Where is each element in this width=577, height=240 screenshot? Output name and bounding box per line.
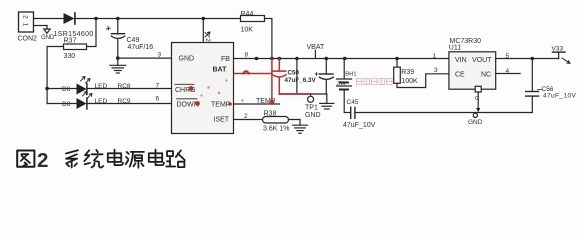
char 电 (1) (108, 150, 123, 165)
wire (red): C50 bottom to TP1 node (279, 93, 310, 95)
red annotation overlay (189, 59, 392, 106)
svg-text:47uF_10V: 47uF_10V (343, 122, 376, 129)
DOWN pin name with overline (177, 99, 199, 109)
svg-text:C45: C45 (347, 99, 359, 106)
svg-text:VOUT: VOUT (472, 57, 492, 64)
svg-text:C49: C49 (127, 37, 140, 44)
resistor R38 (263, 117, 289, 124)
svg-text:V33: V33 (552, 46, 564, 53)
svg-text:U11: U11 (449, 45, 461, 52)
svg-text:8: 8 (245, 51, 249, 58)
node: IC pin2 junction (202, 17, 206, 21)
node: R39 junction (395, 57, 399, 61)
red watermark marks (357, 79, 393, 85)
red blob at DOWN pin (195, 101, 200, 106)
node: C56 junction (531, 57, 535, 61)
svg-text:FB: FB (221, 56, 230, 63)
wire (red): BAT pin to node (235, 73, 272, 75)
svg-text:CE: CE (455, 72, 465, 79)
capacitor C50 (red) (273, 59, 287, 95)
red blob at TEMP end (269, 100, 274, 105)
svg-text:47uF/16: 47uF/16 (128, 44, 154, 51)
ground symbol under C49 (110, 58, 126, 73)
resistor R44 (241, 16, 265, 22)
svg-text:R39: R39 (401, 69, 414, 76)
ground symbol at TP1 node (320, 94, 334, 109)
node: rail drop junction (295, 57, 299, 61)
wire (red): vertical VBAT to TEMP (271, 59, 273, 104)
svg-text:D6: D6 (62, 86, 71, 93)
svg-text:330: 330 (64, 53, 76, 60)
wire: LED D8 cathode to DOWN pin (87, 103, 172, 105)
wire: to LED D6 anode (47, 88, 76, 90)
char 路 (166, 151, 185, 168)
char 源 (126, 152, 144, 168)
wire: R37 feed from rail (87, 19, 97, 47)
char 统 (84, 150, 103, 168)
capacitor (black) at battery node (315, 59, 333, 95)
svg-text:R38: R38 (264, 111, 277, 118)
G pin pad of U11 (475, 86, 481, 112)
svg-text:BAT: BAT (213, 66, 228, 73)
svg-text:TEMP: TEMP (211, 102, 231, 109)
svg-text:GND: GND (305, 112, 321, 119)
ground symbol at CON2 pin1 (44, 26, 50, 34)
svg-text:10K: 10K (241, 27, 254, 34)
connector CON2 (19, 12, 34, 32)
svg-text:1: 1 (21, 23, 28, 27)
wire: bottom rail left of C45 (345, 112, 351, 114)
battery BH1 (337, 59, 352, 113)
wire: TEMP pin out (234, 103, 280, 105)
LED D6 (77, 77, 91, 95)
wire: rail to R44 (203, 18, 240, 20)
svg-text:BH1: BH1 (345, 72, 356, 78)
svg-text:5: 5 (506, 53, 510, 60)
svg-text:R44: R44 (241, 11, 254, 18)
capacitor C49 (106, 19, 124, 59)
svg-text:47uF_10V: 47uF_10V (543, 93, 576, 100)
ground symbol under R38 (293, 125, 308, 133)
wire: CON2 pin1 to ground (34, 25, 48, 27)
resistor R39 (394, 59, 449, 88)
red blob at TEMP pin (228, 102, 232, 106)
svg-text:3.6K 1%: 3.6K 1% (263, 126, 289, 133)
wire: VOUT to V33 (496, 58, 559, 60)
VBAT net label (307, 44, 325, 58)
resistor R37 (64, 44, 87, 50)
red bump on BAT wire (243, 71, 249, 73)
NC stub wire (496, 73, 520, 75)
wire: LED D6 cathode to CHRG pin (87, 88, 172, 90)
red specks inside charger IC (200, 79, 243, 101)
GND marker circle on bottom rail (473, 113, 477, 117)
char 电 (2) (149, 150, 164, 165)
test point TP1 (308, 94, 314, 102)
op-amp/charger IC U? box (172, 43, 234, 134)
wire: bottom rail C45 to C56 (355, 112, 532, 114)
node: C50 junction (278, 57, 282, 61)
wire: FB/VBAT rail to U11 VIN (234, 58, 449, 60)
wire: rail drop to gnd node (296, 59, 298, 95)
svg-text:47uF_6.3V: 47uF_6.3V (285, 77, 317, 84)
wire: diode cathode to rail (75, 18, 203, 20)
wire: R44 right end down to VBAT rail (265, 19, 272, 59)
wire: to LED D8 anode (47, 103, 76, 105)
wire: R38 to ground (289, 120, 301, 126)
svg-text:2: 2 (21, 15, 28, 19)
char 系 (66, 150, 78, 167)
svg-text:2: 2 (204, 38, 211, 42)
svg-text:VIN: VIN (455, 57, 467, 64)
LED D8 (77, 92, 93, 110)
svg-text:R37: R37 (64, 38, 77, 45)
node: R44 drop junction (270, 57, 274, 61)
clock mark at pin 2 (205, 32, 210, 37)
svg-text:TP1: TP1 (305, 104, 318, 111)
regulator U11 box (449, 52, 496, 89)
node: battery junction (343, 57, 347, 61)
svg-text:NC: NC (481, 72, 491, 79)
capacitor C45 (351, 107, 355, 118)
svg-text:GND: GND (179, 55, 195, 62)
svg-text:GND: GND (468, 119, 483, 126)
svg-text:100K: 100K (401, 78, 418, 85)
svg-text:CON2: CON2 (18, 36, 38, 43)
svg-text:6: 6 (156, 96, 160, 103)
node: C49 tap junction (116, 17, 120, 21)
wire: ISET pin to R38 (234, 119, 263, 121)
svg-text:3W: 3W (337, 81, 346, 87)
node: LED top row junction (45, 87, 49, 91)
svg-text:3: 3 (434, 67, 438, 74)
node: R37 tap junction (94, 17, 98, 21)
svg-text:D8: D8 (62, 101, 71, 108)
diode 1SR154600 (64, 13, 75, 24)
node: junction at 256 (255, 57, 259, 61)
node: C49 bottom / GND pin junction (116, 56, 120, 60)
power net V33 (553, 52, 571, 63)
CHRG pin name with overline (175, 84, 196, 94)
char 图 (17, 151, 34, 167)
svg-text:ISET: ISET (214, 117, 230, 124)
svg-text:2: 2 (37, 149, 48, 172)
wire: CON2 pin2 to diode anode (34, 18, 64, 20)
svg-text:1: 1 (433, 53, 437, 60)
svg-text:C50: C50 (288, 70, 300, 77)
capacitor C56 (526, 59, 542, 113)
node: C44 cap junction (325, 57, 329, 61)
caption: 图2 系统电源电路 (17, 149, 185, 172)
wire: gnd node horizontal (279, 93, 327, 95)
svg-text:3: 3 (158, 52, 162, 59)
svg-text:4: 4 (506, 68, 510, 75)
red blob at CHRG pin (189, 86, 194, 91)
wire: pin 2 drop to U? top (202, 19, 204, 43)
wire: C49 bottom to charger GND pin 3 (118, 57, 172, 59)
svg-text:2: 2 (244, 113, 248, 120)
wire: R37 left to LED column (47, 47, 63, 104)
